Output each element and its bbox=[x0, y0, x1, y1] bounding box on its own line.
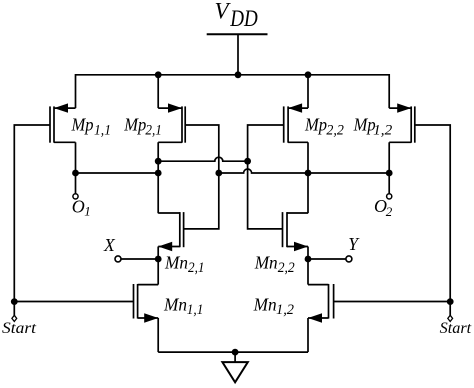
svg-text:Mn: Mn bbox=[163, 295, 187, 315]
wire left X column bbox=[157, 247, 159, 285]
transistor Mp1,2 bbox=[389, 103, 415, 142]
junction Start right bbox=[447, 298, 454, 305]
label VDD bbox=[215, 0, 259, 31]
wire top VDD rail bbox=[76, 75, 390, 108]
junction right-gates upper bbox=[244, 158, 251, 165]
svg-text:1,2: 1,2 bbox=[276, 302, 294, 318]
wire right drain column bbox=[307, 142, 309, 213]
junction right-drain lower bbox=[305, 170, 312, 177]
wire Mp2,1 source vertical bbox=[157, 75, 159, 108]
wire bottom ground rail bbox=[158, 351, 308, 353]
transistor Mn2,1 bbox=[158, 212, 183, 251]
ground symbol stub bbox=[234, 352, 236, 362]
svg-text:O: O bbox=[72, 197, 85, 217]
label O2 bbox=[374, 196, 393, 219]
junction X node bbox=[155, 256, 162, 263]
junction rail-VDD bbox=[235, 71, 242, 78]
svg-text:1,2: 1,2 bbox=[373, 122, 393, 138]
wire Y lead bbox=[308, 258, 346, 260]
junction left-drain upper bbox=[155, 158, 162, 165]
label Start right bbox=[440, 320, 472, 337]
wire Mn1,1 source vertical bbox=[157, 318, 159, 352]
junction rail-Mp2,2 bbox=[305, 71, 312, 78]
svg-text:Mp: Mp bbox=[123, 115, 146, 135]
label X bbox=[103, 235, 116, 255]
transistor Mp2,2 bbox=[284, 103, 308, 142]
label Mn2,2 bbox=[254, 253, 295, 276]
svg-text:DD: DD bbox=[229, 6, 258, 31]
junction Y node bbox=[305, 256, 312, 263]
junction ground bbox=[232, 349, 239, 356]
svg-text:1,1: 1,1 bbox=[187, 302, 204, 318]
label Mn1,2 bbox=[253, 295, 295, 319]
label Start left bbox=[2, 320, 37, 337]
svg-text:2,2: 2,2 bbox=[278, 260, 295, 276]
svg-text:2: 2 bbox=[386, 204, 393, 219]
label Y bbox=[348, 234, 360, 254]
terminal Start left diamond bbox=[12, 315, 17, 321]
wire right Y column bbox=[307, 247, 309, 285]
svg-text:Mp: Mp bbox=[71, 115, 94, 135]
transistor Mn2,2 bbox=[283, 212, 309, 251]
label Mp2,1 bbox=[123, 115, 162, 139]
wire X lead bbox=[122, 258, 159, 260]
junction left-drain lower bbox=[155, 170, 162, 177]
terminal Start left stub bbox=[13, 302, 15, 316]
VDD supply bar symbol bbox=[207, 33, 268, 35]
svg-text:V: V bbox=[215, 0, 232, 24]
junction rail-Mp2,1 bbox=[155, 71, 162, 78]
wire Mn1,2 source vertical bbox=[307, 318, 309, 352]
wire VDD stub bbox=[237, 34, 239, 75]
svg-text:Mn: Mn bbox=[164, 253, 188, 273]
wire lower cross-coupling (right drains to left gates) with hop bbox=[219, 169, 389, 173]
junction O2 node bbox=[386, 170, 393, 177]
junction Start left bbox=[11, 298, 18, 305]
svg-text:2,2: 2,2 bbox=[326, 122, 344, 138]
wire left drain column bbox=[157, 142, 159, 213]
svg-text:Start: Start bbox=[2, 320, 37, 337]
svg-text:Start: Start bbox=[440, 320, 472, 337]
terminal Y bbox=[346, 256, 352, 262]
svg-text:Y: Y bbox=[348, 234, 360, 254]
svg-text:2,1: 2,1 bbox=[145, 122, 162, 138]
svg-text:Mp: Mp bbox=[304, 115, 327, 135]
junction left-gates lower bbox=[215, 170, 222, 177]
label Mp2,2 bbox=[304, 115, 344, 139]
wire Mp1,1 drain vertical bbox=[75, 142, 77, 173]
transistor Mp2,1 bbox=[158, 103, 185, 142]
terminal Start right diamond bbox=[448, 315, 453, 321]
label Mp1,2 bbox=[353, 115, 393, 139]
transistor Mn1,1 bbox=[134, 284, 159, 323]
wire Mp2,1/Mn2,1 gate column bbox=[184, 125, 219, 229]
label Mp1,1 bbox=[71, 115, 111, 139]
label O1 bbox=[72, 197, 91, 219]
transistor Mn1,2 bbox=[308, 284, 334, 323]
svg-text:Mn: Mn bbox=[253, 295, 277, 315]
svg-text:1,1: 1,1 bbox=[94, 122, 111, 138]
svg-text:X: X bbox=[103, 235, 116, 255]
label Mn1,1 bbox=[163, 295, 203, 319]
ground symbol triangle bbox=[222, 362, 247, 382]
terminal X bbox=[115, 256, 121, 262]
wire lower-left (O1 to left drains) bbox=[76, 172, 159, 174]
terminal Start right stub bbox=[449, 302, 451, 316]
junction O1 node bbox=[72, 170, 79, 177]
transistor Mp1,1 bbox=[50, 103, 76, 142]
svg-text:2,1: 2,1 bbox=[188, 260, 205, 276]
terminal O2 bbox=[388, 173, 390, 193]
wire Mp1,2 drain vertical bbox=[388, 142, 390, 173]
svg-text:1: 1 bbox=[84, 204, 91, 219]
wire Start-left gate line bbox=[14, 125, 133, 302]
wire Start-right gate line bbox=[334, 125, 451, 302]
wire Mp2,2 source vertical bbox=[307, 75, 309, 108]
wire Mp2,2/Mn2,2 gate column bbox=[248, 125, 284, 229]
svg-text:Mn: Mn bbox=[254, 253, 278, 273]
terminal O1 bbox=[75, 173, 77, 193]
label Mn2,1 bbox=[164, 253, 204, 276]
wire upper cross-coupling (left drains to right gates) with hop bbox=[158, 157, 247, 161]
